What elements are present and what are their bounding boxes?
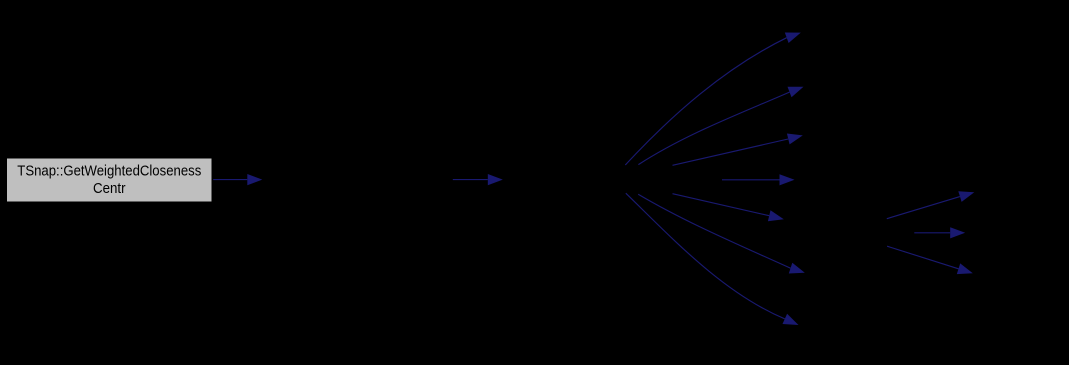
edge E1: [625, 33, 801, 166]
edge A1: [213, 174, 262, 185]
edge E4: [722, 174, 795, 185]
edge E6: [638, 194, 805, 273]
edge E5: [673, 194, 784, 222]
edge F2: [914, 227, 965, 238]
edge E7: [626, 193, 799, 325]
svg-text:TSnap::GetWeightedCloseness: TSnap::GetWeightedCloseness: [17, 163, 201, 180]
edge F3: [887, 246, 973, 274]
edge A2: [453, 174, 503, 185]
edge E3: [673, 134, 803, 166]
edge E2: [638, 87, 803, 165]
svg-text:Centr: Centr: [93, 180, 126, 197]
node: TSnap::GetWeightedClosenessCentr (grey75 filled box): [7, 158, 213, 202]
edge F1: [887, 191, 975, 219]
